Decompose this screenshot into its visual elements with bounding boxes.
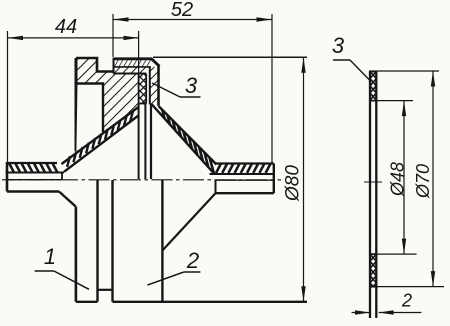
stem lines under gasket (3 verticals) (139, 104, 151, 180)
part2 lower body (113, 180, 216, 302)
dimension D48 (377, 101, 416, 255)
label 1 (35, 244, 89, 289)
svg-text:2: 2 (186, 248, 199, 273)
label 2 (147, 248, 200, 285)
cap dense band (clamp plate) (114, 58, 160, 74)
ring strip outline (369, 71, 377, 318)
svg-text:2: 2 (401, 291, 412, 311)
dimension D70 (377, 71, 444, 287)
bottom edge line + dim extension (76, 301, 307, 303)
gasket column (cross-hatched, part 3 in section) (139, 74, 147, 104)
dimension 52 (113, 0, 272, 163)
sparse band under cap (114, 67, 147, 74)
label 3 (left view) (152, 73, 201, 98)
svg-text:1: 1 (44, 244, 56, 269)
dimension 2 (thickness) (352, 291, 422, 315)
label 3 (right view) (332, 33, 370, 80)
cone band right (ticked) (151, 104, 217, 174)
centerline (axis) dash-dot (2, 179, 281, 181)
svg-text:Ø70: Ø70 (413, 164, 433, 199)
svg-text:3: 3 (185, 73, 198, 98)
bore pentagon (white cavity) (76, 84, 103, 152)
svg-text:3: 3 (332, 33, 345, 58)
ring centerline tick (364, 181, 382, 183)
dimension D80 (283, 57, 306, 301)
top edge line + dim extension (153, 56, 307, 58)
dimension 44 (8, 16, 140, 162)
hub block (left, hatched) (76, 58, 139, 151)
ring cross-hatched ends (369, 71, 377, 286)
cone band left (ticked) (62, 107, 139, 172)
svg-text:Ø48: Ø48 (388, 162, 408, 197)
right wall column (hatched) (150, 66, 159, 106)
svg-text:52: 52 (171, 0, 193, 21)
svg-text:Ø80: Ø80 (283, 165, 304, 202)
lower body: part1 stem chamfer (59, 192, 76, 207)
right flange (210, 164, 274, 194)
left flange (6, 162, 65, 192)
svg-text:44: 44 (55, 16, 77, 38)
part1 stem outline (76, 180, 98, 302)
bottom notch between stems (98, 289, 113, 291)
